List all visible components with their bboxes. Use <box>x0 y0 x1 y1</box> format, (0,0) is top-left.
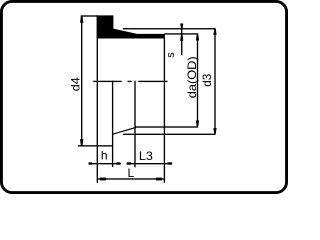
svg-text:L3: L3 <box>139 149 153 163</box>
dimension line d4 <box>81 16 82 146</box>
d4 top arrow <box>80 17 83 23</box>
lower taper line <box>112 127 136 135</box>
svg-text:L: L <box>128 166 135 180</box>
dimension line da(OD) <box>197 34 198 127</box>
d3 top arrow <box>213 29 216 35</box>
L3 right arrow <box>168 162 172 164</box>
dimension line L3 (outside arrows) <box>127 163 173 164</box>
s top arrow <box>180 24 183 29</box>
left face line (extension down through lower half) <box>97 15 98 183</box>
svg-text:s: s <box>165 52 177 58</box>
lower shoulder line C (d3 reference) <box>123 134 215 135</box>
h right arrow <box>116 162 120 164</box>
L3 left arrow <box>127 162 131 164</box>
dimension line L (inside arrows) <box>97 178 164 179</box>
da bottom arrow <box>196 120 199 126</box>
L left arrow <box>100 178 106 181</box>
dimension line d3 <box>214 28 215 134</box>
h left arrow <box>89 162 92 164</box>
svg-text:d4: d4 <box>69 77 83 91</box>
svg-text:h: h <box>101 149 108 163</box>
flange top extension line <box>81 15 98 16</box>
dimension line s <box>181 23 182 55</box>
part section fill (flange lip + taper + pipe wall, upper half) <box>97 15 165 38</box>
d4 bottom arrow <box>80 139 83 145</box>
pipe end extension line <box>164 39 165 183</box>
pipe wall top extension line (da/s reference) <box>164 33 198 34</box>
upper shoulder extension line A (d3/s reference) <box>123 28 215 29</box>
dimension line h (outside arrows) <box>89 163 121 164</box>
lower flange right face line <box>112 81 113 167</box>
da top arrow <box>196 35 199 41</box>
lower pipe outer line B (da reference) <box>136 126 199 127</box>
L3 left extension line <box>134 81 135 168</box>
L right arrow <box>156 178 162 181</box>
lower flange bottom line (d4 reference) <box>78 145 113 146</box>
svg-text:da(OD): da(OD) <box>185 56 199 98</box>
border frame <box>1 1 286 192</box>
centerline (dash-dot axis) <box>93 81 122 82</box>
s bottom arrow <box>180 35 183 41</box>
d3 bottom arrow <box>213 128 216 134</box>
svg-text:d3: d3 <box>200 73 214 86</box>
